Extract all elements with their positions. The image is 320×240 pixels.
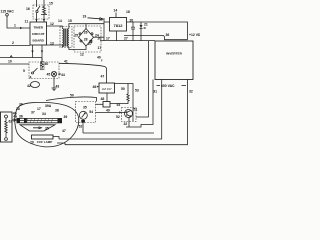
svg-text:14: 14 — [114, 9, 118, 13]
capacitor C1 — [131, 22, 135, 41]
arrow 44 — [57, 73, 60, 75]
transformer T1 dashed outline — [60, 27, 72, 48]
resistor heater in top box — [41, 6, 47, 15]
wedge arrow — [33, 127, 42, 129]
svg-text:50: 50 — [70, 94, 74, 98]
svg-text:36: 36 — [19, 115, 23, 119]
svg-text:36: 36 — [166, 33, 170, 37]
wire lower rail into relay box — [0, 63, 29, 65]
bridge diamond — [79, 29, 94, 47]
zener diode D1 — [140, 22, 146, 41]
wire curve from crt to lm317 adj — [46, 97, 97, 102]
svg-text:52: 52 — [116, 115, 120, 119]
transistor dashed box — [122, 108, 137, 122]
timer circuit board box U1 — [30, 22, 47, 45]
wire regulator input — [104, 21, 110, 23]
svg-text:15: 15 — [49, 2, 53, 6]
ccf lamp box — [32, 135, 54, 139]
svg-text:39A: 39A — [45, 104, 52, 108]
svg-text:38: 38 — [55, 109, 59, 113]
terminal in ballast — [5, 115, 8, 118]
wire lamp out right — [53, 137, 59, 140]
wires from top box down to timer — [36, 13, 38, 22]
svg-text:27: 27 — [124, 36, 128, 40]
wire meter box to connector — [96, 103, 104, 105]
svg-text:20: 20 — [30, 141, 34, 145]
svg-text:115 VAC: 115 VAC — [1, 10, 15, 14]
svg-text:37: 37 — [31, 111, 35, 115]
svg-text:CCF LAMP: CCF LAMP — [37, 140, 53, 144]
wire transistor base — [96, 112, 127, 114]
wire dc rail right — [100, 40, 155, 42]
wire lm317 out right — [115, 84, 134, 122]
svg-text:LM 317: LM 317 — [102, 87, 112, 91]
wire stub top x44 — [43, 0, 45, 7]
svg-text:41: 41 — [64, 60, 68, 64]
regulator U3 LM317 — [99, 83, 115, 93]
svg-text:21: 21 — [144, 23, 148, 27]
wire timer to transformer top, label 12 — [47, 26, 63, 29]
svg-text:18: 18 — [126, 10, 130, 14]
meter dashed box — [76, 102, 96, 123]
svg-text:4: 4 — [30, 76, 32, 80]
wire rectifier dc+ out — [94, 36, 105, 38]
connector small box — [103, 102, 110, 108]
svg-text:+12 VDC: +12 VDC — [189, 33, 200, 37]
wire transistor emitter down — [128, 118, 130, 128]
transistor Q1 — [125, 110, 133, 118]
svg-text:46: 46 — [93, 85, 97, 89]
motor ellipse 42 — [31, 82, 40, 88]
transformer core — [63, 29, 65, 47]
crt bag outline — [15, 102, 79, 147]
svg-text:39: 39 — [64, 115, 68, 119]
svg-text:32: 32 — [189, 90, 193, 94]
wire regulator gnd down — [116, 31, 118, 41]
svg-text:1: 1 — [14, 24, 16, 28]
wire lamp down gnd — [53, 77, 55, 88]
svg-text:TIMER: TIMER — [33, 26, 43, 30]
wire stub top x36.5 — [36, 0, 38, 7]
svg-text:49: 49 — [106, 109, 110, 113]
wire secondary top to rectifier — [69, 24, 104, 29]
svg-text:51: 51 — [134, 108, 138, 112]
wire +12 rail top — [127, 22, 188, 40]
bridge terminal circles — [79, 33, 81, 35]
wire lamp out lower — [57, 143, 65, 145]
switch contact in top box — [36, 10, 38, 12]
wire secondary bottom to rectifier — [69, 46, 86, 50]
svg-text:12: 12 — [80, 52, 84, 56]
meter M1 — [79, 111, 87, 119]
svg-text:40: 40 — [97, 56, 101, 60]
svg-text:25: 25 — [74, 33, 78, 37]
light guide wedge — [20, 125, 55, 131]
svg-text:62: 62 — [9, 120, 13, 124]
wire timer pin 9 down — [41, 45, 43, 62]
bridge rectifier BR1 dashed box — [74, 26, 101, 52]
wire lm317 adj down — [106, 93, 108, 102]
svg-text:600 VAC: 600 VAC — [161, 84, 175, 88]
svg-text:35: 35 — [45, 127, 49, 131]
svg-text:17: 17 — [106, 36, 110, 40]
ballast bottom circle — [5, 138, 8, 141]
left ballast box — [1, 112, 13, 142]
bridge wire top — [85, 24, 87, 29]
lamp tube — [17, 118, 63, 122]
wire dc rail corner down — [136, 41, 149, 117]
wire ballast to tube arrow — [12, 119, 17, 121]
wire 41 to lm317 — [59, 63, 107, 83]
wire resistor top — [127, 84, 129, 93]
svg-text:35: 35 — [83, 105, 87, 109]
wire timer pin 8 down — [32, 45, 34, 58]
svg-text:10: 10 — [8, 60, 12, 64]
wire timer to transformer bottom, label 13 — [47, 45, 63, 47]
wire input down and right — [7, 16, 30, 28]
svg-text:14: 14 — [58, 19, 62, 23]
svg-text:16: 16 — [26, 7, 30, 11]
wire ac in right — [103, 18, 105, 41]
voltage regulator U2 7812 — [110, 18, 127, 32]
svg-text:12: 12 — [50, 22, 54, 26]
svg-text:2: 2 — [12, 41, 14, 45]
svg-text:31: 31 — [153, 89, 157, 93]
wire adj to resistor — [110, 103, 128, 105]
svg-text:20: 20 — [130, 18, 134, 22]
svg-text:17: 17 — [98, 46, 102, 50]
junction dot 8 — [31, 51, 33, 54]
wire +12 into inverter — [124, 35, 188, 39]
svg-text:45: 45 — [47, 73, 51, 77]
svg-text:13: 13 — [50, 42, 54, 46]
ballast resistor — [5, 118, 7, 137]
svg-text:34: 34 — [42, 112, 46, 116]
svg-text:15: 15 — [68, 19, 72, 23]
transformer primary winding — [62, 29, 63, 47]
switch contact in relay box — [32, 72, 34, 74]
svg-text:5: 5 — [23, 69, 25, 73]
wire meter down — [82, 119, 84, 133]
svg-text:CIRCUIT: CIRCUIT — [32, 32, 45, 36]
svg-text:7812: 7812 — [114, 23, 124, 28]
transformer secondary winding — [68, 29, 69, 47]
relay/switch dashed box top — [33, 5, 49, 19]
svg-text:47: 47 — [62, 129, 66, 133]
junction dot 9 — [41, 51, 43, 54]
svg-text:INVERTER: INVERTER — [166, 52, 182, 56]
svg-text:17: 17 — [37, 107, 41, 111]
label 50b blob — [81, 120, 85, 123]
dashed relay box K1 — [29, 62, 59, 79]
svg-text:26: 26 — [84, 31, 88, 35]
wire 10 rail — [0, 57, 42, 59]
ground 43 — [52, 88, 57, 91]
svg-text:53: 53 — [117, 103, 121, 107]
converter enclosure box — [155, 41, 193, 80]
wire converter gnd left — [126, 80, 153, 128]
svg-text:40: 40 — [45, 62, 49, 66]
wire hv left — [59, 80, 162, 140]
svg-text:42: 42 — [27, 84, 31, 88]
svg-text:50: 50 — [121, 87, 125, 91]
terminal circle — [6, 14, 9, 17]
resistor R50 — [127, 92, 129, 104]
svg-text:BOARD: BOARD — [33, 39, 45, 43]
svg-text:19: 19 — [83, 14, 87, 18]
fuse element 40 — [41, 58, 43, 70]
svg-text:54: 54 — [89, 110, 93, 114]
svg-text:28: 28 — [84, 37, 88, 41]
wire arrow on input — [20, 27, 23, 29]
wire meter rail — [83, 132, 154, 134]
wire hv right — [65, 80, 188, 145]
svg-text:32: 32 — [124, 122, 128, 126]
svg-text:30: 30 — [19, 103, 23, 107]
svg-text:11: 11 — [25, 19, 29, 23]
svg-text:48: 48 — [101, 97, 105, 101]
svg-text:52: 52 — [79, 125, 83, 129]
arrow 49 — [119, 111, 122, 113]
svg-text:27: 27 — [88, 42, 92, 46]
lamp 45 circle-x — [51, 71, 56, 76]
svg-text:47: 47 — [101, 75, 105, 79]
svg-text:53: 53 — [135, 89, 139, 93]
svg-text:43: 43 — [56, 85, 60, 89]
wire 2 rail — [0, 45, 30, 47]
svg-text:44: 44 — [61, 73, 65, 77]
